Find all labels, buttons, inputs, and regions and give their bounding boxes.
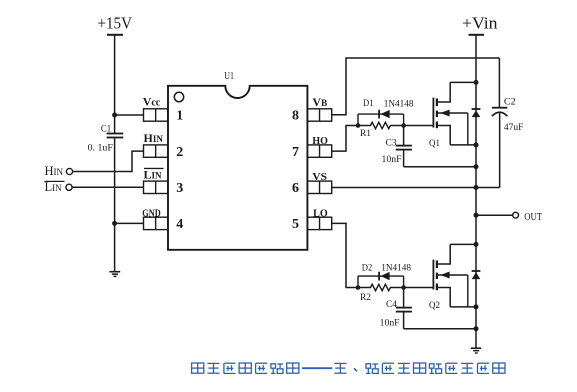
transistor Q1 gate bar <box>432 98 434 128</box>
node Q2 drain junction <box>474 242 479 247</box>
wire Vcc pin to rail <box>115 114 144 116</box>
wire C4 to bus <box>404 328 476 330</box>
svg-text:HO: HO <box>312 135 328 147</box>
pin label Lin overline <box>144 168 164 169</box>
transistor Q2 source stub <box>437 288 450 307</box>
svg-text:1N4148: 1N4148 <box>381 264 411 274</box>
wire D2 branch verticals <box>357 276 359 287</box>
wire +Vin bus <box>475 36 477 348</box>
svg-text:3: 3 <box>176 181 183 196</box>
svg-text:Q2: Q2 <box>429 301 440 311</box>
wire Q2 body to source <box>467 275 469 307</box>
svg-text:OUT: OUT <box>524 211 542 223</box>
diode D2 <box>378 272 380 281</box>
wire Q1 body to source <box>467 113 469 145</box>
svg-text:C4: C4 <box>386 300 397 310</box>
pin box pin 2 <box>144 145 168 157</box>
wire D1 branch verticals <box>357 114 359 125</box>
wire Q1 source to bus <box>450 144 476 146</box>
transistor Q2 drain stub <box>437 244 450 264</box>
capacitor C3 top lead <box>403 126 405 146</box>
node Q1 drain junction <box>474 80 479 85</box>
node VS-bus junction <box>474 185 479 190</box>
svg-text:C3: C3 <box>386 138 397 148</box>
pin box pin 6 <box>307 181 331 193</box>
svg-text:HIN: HIN <box>144 131 164 145</box>
capacitor C4 bottom lead <box>403 313 405 329</box>
svg-text:Vcc: Vcc <box>143 95 161 109</box>
IC pin1 indicator circle <box>174 92 183 101</box>
svg-text:D1: D1 <box>363 99 374 109</box>
svg-text:8: 8 <box>292 109 299 124</box>
power +Vin rail bar <box>469 34 485 36</box>
wire Q2 source to bus <box>450 306 476 308</box>
pin box pin 8 <box>307 109 331 121</box>
wire D1 branch <box>358 113 404 115</box>
node Q2 source junction <box>474 304 479 309</box>
wire C3 to bus <box>404 166 476 168</box>
wire +15V rail upper segment <box>114 36 116 134</box>
svg-text:2: 2 <box>176 145 183 160</box>
capacitor C2 positive plate <box>492 107 508 109</box>
svg-text:GND: GND <box>142 207 160 219</box>
node C4-bus junction <box>474 326 479 331</box>
svg-text:R2: R2 <box>360 293 371 303</box>
resistor R2 <box>358 284 404 290</box>
pin box pin 1 <box>144 109 168 121</box>
svg-text:D2: D2 <box>362 264 373 274</box>
transistor Q1 drain stub <box>437 82 450 102</box>
node OUT junction <box>474 213 479 218</box>
caption: typical application circuit - half-bridge drive (CJK pseudo-glyphs) <box>192 363 505 373</box>
wire D2 branch <box>358 275 404 277</box>
capacitor C3 bottom lead <box>403 151 405 167</box>
node GND junction <box>112 221 117 226</box>
svg-text:6: 6 <box>292 181 299 196</box>
svg-text:5: 5 <box>292 217 299 232</box>
wire LO to gate network <box>332 223 358 287</box>
transistor Q1 source stub <box>437 126 450 145</box>
svg-text:1: 1 <box>176 109 183 124</box>
capacitor C3 plates <box>396 145 412 147</box>
wire Q1 drain to bus <box>450 81 476 83</box>
node R1 left <box>356 123 361 128</box>
node R2 left <box>356 285 361 290</box>
svg-text:C1: C1 <box>101 125 112 135</box>
diode Q2 body diode <box>472 270 481 272</box>
svg-text:VB: VB <box>312 95 327 109</box>
svg-text:47uF: 47uF <box>504 123 524 133</box>
transistor Q1 body arrow <box>438 112 468 114</box>
wire Q2 drain to bus <box>450 243 476 245</box>
svg-text:4: 4 <box>176 217 183 232</box>
svg-text:U1: U1 <box>224 70 234 82</box>
node R1 right <box>401 123 406 128</box>
capacitor C2 bottom lead <box>499 113 501 188</box>
wire Lin input to pin 3 <box>72 186 143 188</box>
transistor Q2 gate bar <box>432 260 434 290</box>
wire VB to bootstrap top <box>332 58 500 115</box>
wire GND pin to rail <box>115 222 144 224</box>
svg-text:+15V: +15V <box>98 13 133 32</box>
wire OUT <box>476 214 513 216</box>
svg-text:VS: VS <box>312 171 327 183</box>
power +15V rail bar <box>107 34 123 36</box>
svg-text:LO: LO <box>313 207 328 219</box>
wire +15V rail lower segment <box>114 138 116 271</box>
svg-text:LIN: LIN <box>45 180 63 194</box>
transistor Q2 channel dashes <box>436 260 438 268</box>
ground left <box>109 271 120 273</box>
wire gate line Q2 <box>404 287 434 289</box>
svg-text:HIN: HIN <box>45 164 64 178</box>
svg-text:10nF: 10nF <box>382 155 402 165</box>
node C3-bus junction <box>474 164 479 169</box>
terminal Hin input circle <box>66 168 72 174</box>
svg-text:10nF: 10nF <box>380 319 400 329</box>
resistor R1 <box>358 122 404 128</box>
wire HO to gate network <box>332 126 358 152</box>
capacitor C2 curved plate <box>492 112 508 116</box>
node Q1 source junction <box>474 142 479 147</box>
svg-text:R1: R1 <box>360 129 371 139</box>
transistor Q1 channel dashes <box>436 98 438 106</box>
wire VS line <box>332 187 500 189</box>
svg-text:0. 1uF: 0. 1uF <box>88 144 113 154</box>
node Vcc junction <box>112 113 117 118</box>
svg-text:LIN: LIN <box>144 168 163 182</box>
capacitor C4 plates <box>396 307 412 309</box>
label Lin input overline <box>45 181 65 182</box>
pin box pin 5 <box>307 217 331 229</box>
pin box pin 4 <box>144 217 168 229</box>
op-amp/driver IC U1 body <box>168 86 307 250</box>
diode D1 <box>378 110 380 119</box>
capacitor C4 top lead <box>403 288 405 308</box>
svg-text:Q1: Q1 <box>429 139 440 149</box>
node R2 right <box>401 285 406 290</box>
svg-text:1N4148: 1N4148 <box>384 99 414 109</box>
pin box pin 7 <box>307 145 331 157</box>
capacitor C2 top lead <box>498 58 500 107</box>
pin box pin 3 <box>144 181 168 193</box>
svg-text:C2: C2 <box>504 98 516 108</box>
transistor Q2 body arrow <box>438 274 468 276</box>
svg-text:+Vin: +Vin <box>462 13 498 32</box>
ground right <box>471 347 481 349</box>
wire gate line Q1 <box>404 125 434 127</box>
terminal Lin input circle <box>66 184 72 190</box>
capacitor C1 <box>107 133 124 135</box>
wire Hin input to pin 2 <box>73 151 144 171</box>
terminal OUT circle <box>513 212 519 218</box>
diode Q1 body diode <box>472 108 481 110</box>
svg-text:7: 7 <box>292 145 299 160</box>
